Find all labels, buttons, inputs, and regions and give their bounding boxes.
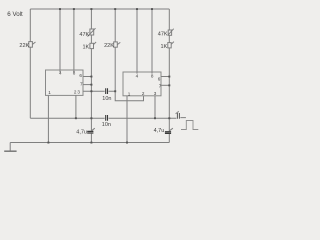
- capacitor C5 output series: [177, 113, 179, 119]
- svg-text:3: 3: [77, 89, 80, 94]
- wire: right resistor column: [168, 9, 170, 30]
- svg-text:1K: 1K: [160, 44, 167, 50]
- svg-text:7: 7: [80, 81, 83, 86]
- svg-text:4: 4: [136, 73, 139, 78]
- svg-text:7: 7: [159, 83, 162, 88]
- junction dots: [47, 8, 170, 143]
- resistor R6 1K: [168, 43, 171, 48]
- resistor R5 47K: [168, 30, 171, 35]
- svg-text:8: 8: [151, 73, 154, 78]
- svg-text:3: 3: [154, 91, 157, 96]
- wire: ground rail: [10, 142, 169, 144]
- svg-text:47K: 47K: [158, 31, 168, 37]
- node bus junctions: [75, 117, 77, 119]
- wire: IC2 pin6: [161, 76, 169, 78]
- node mid column junction: [114, 90, 116, 92]
- node right column junctions: [168, 76, 170, 78]
- ground stub: [9, 143, 11, 151]
- resistor R3 1K: [90, 43, 94, 48]
- wire: IC1 pin8 drop: [73, 9, 75, 72]
- resistor R4 22K: [114, 42, 118, 47]
- wire: column below 1K: [90, 49, 92, 131]
- node ground rail junctions: [47, 142, 49, 144]
- svg-text:2: 2: [142, 91, 145, 96]
- svg-text:6: 6: [79, 73, 82, 78]
- svg-text:1K: 1K: [82, 44, 89, 50]
- wire: IC1 pin3 out: [83, 90, 115, 92]
- node rail taps: [59, 8, 61, 10]
- svg-text:4,7u: 4,7u: [154, 128, 165, 134]
- svg-text:10n: 10n: [102, 96, 111, 102]
- wire: left resistor column: [90, 9, 92, 29]
- wire: right column below cap to ground rail corner: [168, 134, 170, 143]
- wire: IC2 pin8 drop: [151, 9, 153, 74]
- wire: mid 22K branch: [114, 9, 116, 42]
- svg-text:22K: 22K: [104, 43, 114, 49]
- wire: IC2 pin1 to ground: [126, 96, 128, 143]
- wire: mid column down, corner to IC2 pin2: [115, 47, 143, 101]
- wire: IC1 pin4 drop: [59, 9, 61, 72]
- capacitor C1 4,7u electrolytic: [87, 131, 93, 133]
- wire: IC1 pin7: [83, 84, 91, 86]
- wire: trigger bus horizontal: [30, 117, 186, 120]
- resistor R2 47K: [90, 29, 94, 35]
- node: output waveform symbol: [181, 121, 198, 130]
- wire: IC1 pin2 down to bus: [75, 95, 77, 118]
- op-amp U2 555 timer box: [123, 72, 161, 96]
- wire: below R1 down to trigger bus corner: [29, 47, 31, 118]
- wire: IC2 pin3 down to bus: [154, 96, 156, 118]
- op-amp U1 555 timer box: [46, 70, 84, 95]
- resistor R1 22K: [29, 42, 33, 48]
- capacitor C3 10n coupling: [106, 88, 108, 94]
- wire: +V top rail: [30, 8, 169, 10]
- svg-text:22K: 22K: [19, 43, 29, 49]
- svg-text:1: 1: [128, 91, 131, 96]
- wire: IC2 pin7: [161, 84, 169, 86]
- wire: IC1 pin6: [83, 76, 91, 78]
- svg-text:6 Volt: 6 Volt: [7, 11, 23, 18]
- svg-text:6: 6: [158, 76, 161, 81]
- node left column junctions: [90, 76, 92, 78]
- svg-text:10n: 10n: [102, 122, 111, 128]
- svg-text:8: 8: [73, 71, 76, 76]
- svg-text:4,7u: 4,7u: [76, 129, 87, 135]
- ground bar: [4, 150, 16, 152]
- svg-text:47K: 47K: [79, 32, 89, 38]
- svg-text:1: 1: [48, 90, 51, 95]
- svg-text:4: 4: [59, 71, 62, 76]
- wire: IC1 pin1 to ground: [47, 95, 49, 142]
- capacitor C2 10n (series in bus): [106, 115, 108, 121]
- wire: column below cap to ground rail: [90, 134, 92, 143]
- capacitor C4 4,7u electrolytic: [165, 132, 171, 134]
- wire: left 22K branch down: [29, 9, 31, 42]
- wire: IC2 pin4 drop: [136, 9, 138, 74]
- wire: right column down: [168, 48, 170, 131]
